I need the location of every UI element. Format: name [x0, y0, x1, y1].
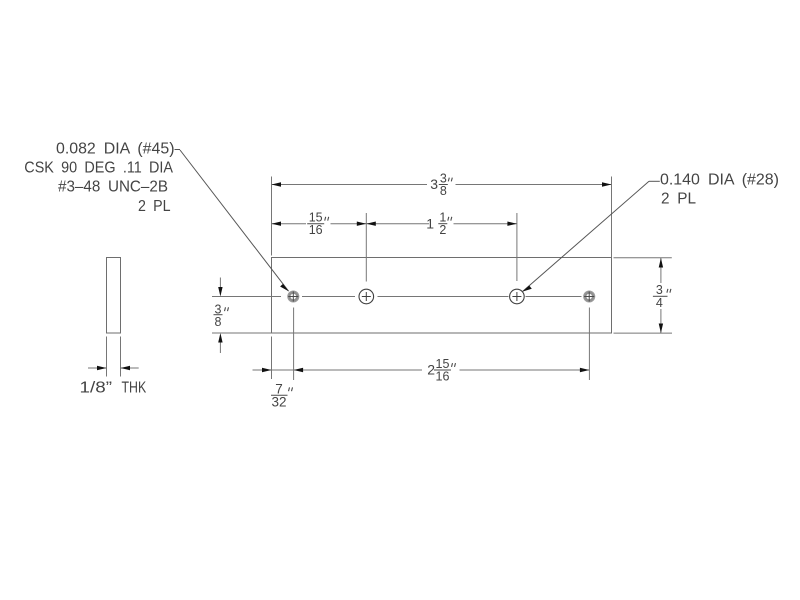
- dimension 7/32 line and outside arrow: [253, 369, 294, 371]
- text 3/8 in: [214, 302, 229, 329]
- dimension 2 15/16 line: [294, 369, 590, 371]
- hole 2: 0.140 DIA (left large hole): [359, 289, 374, 304]
- text 1 1/2 in: [426, 211, 452, 238]
- svg-text:8: 8: [215, 315, 222, 329]
- text 2 15/16 in: [427, 357, 455, 384]
- hole 3: 0.140 DIA (right large hole): [510, 289, 525, 304]
- dimension 1/8 THK: [88, 337, 139, 377]
- arrowheads 3/4: [659, 258, 663, 333]
- leader note left: 0.082 DIA: [24, 141, 174, 216]
- leader arrowhead right: [522, 286, 531, 292]
- text 3/4 in: [653, 283, 671, 310]
- arrowheads 2 15/16: [294, 368, 590, 372]
- extension line bottom edge to left: [212, 332, 272, 334]
- svg-text:THK: THK: [122, 380, 147, 397]
- text 3 3/8 in: [430, 171, 452, 198]
- leader line right: [522, 181, 659, 291]
- svg-text:16: 16: [309, 223, 323, 237]
- svg-text:32: 32: [271, 394, 286, 409]
- svg-text:0.082 DIA (#45): 0.082 DIA (#45): [56, 141, 175, 158]
- arrowheads 1 1/2: [366, 222, 517, 226]
- dimension 3 3/8 overall width line: [272, 184, 612, 186]
- hole 4: 0.082 DIA csk (right small hole): [584, 291, 595, 302]
- arrowheads 3 3/8: [272, 182, 612, 186]
- svg-text:#3–48 UNC–2B: #3–48 UNC–2B: [58, 179, 168, 196]
- dimension 1 1/2 line: [366, 223, 517, 225]
- svg-text:1/8”: 1/8”: [80, 380, 113, 397]
- svg-text:0.140 DIA (#28): 0.140 DIA (#28): [660, 172, 779, 189]
- text 1/8 THK: [80, 380, 147, 397]
- svg-text:8: 8: [440, 184, 447, 198]
- svg-text:2 PL: 2 PL: [661, 191, 696, 208]
- svg-text:3: 3: [430, 176, 438, 192]
- svg-text:2 PL: 2 PL: [138, 198, 171, 215]
- leader arrowhead left: [280, 284, 289, 291]
- centerline through holes: [212, 296, 582, 298]
- arrowhead 7/32: [262, 368, 272, 372]
- hole 1: 0.082 DIA csk (left small hole): [288, 291, 299, 302]
- dimension 15/16 line: [272, 223, 367, 225]
- extension lines below plate: [272, 308, 590, 381]
- text 7/32 in: [271, 382, 293, 410]
- svg-text:2: 2: [439, 223, 446, 237]
- text 15/16 in: [307, 211, 329, 238]
- svg-text:16: 16: [436, 370, 450, 384]
- leader note right: 0.140 DIA: [660, 172, 779, 208]
- extension lines above plate: [272, 177, 612, 282]
- dimension 3/4 right side: [614, 258, 673, 333]
- plate front view outline: [272, 258, 612, 334]
- arrowheads 3/8: [218, 287, 222, 343]
- svg-text:CSK 90 DEG .11 DIA: CSK 90 DEG .11 DIA: [24, 160, 173, 177]
- arrowheads 15/16: [272, 222, 367, 226]
- arrowheads 1/8 THK: [97, 366, 130, 370]
- plate edge view (1/8 thick): [107, 258, 121, 334]
- dimension 3/8 left side arrows: [219, 278, 221, 354]
- svg-text:1: 1: [426, 215, 434, 231]
- svg-text:4: 4: [656, 296, 663, 310]
- leader line left: [175, 150, 289, 292]
